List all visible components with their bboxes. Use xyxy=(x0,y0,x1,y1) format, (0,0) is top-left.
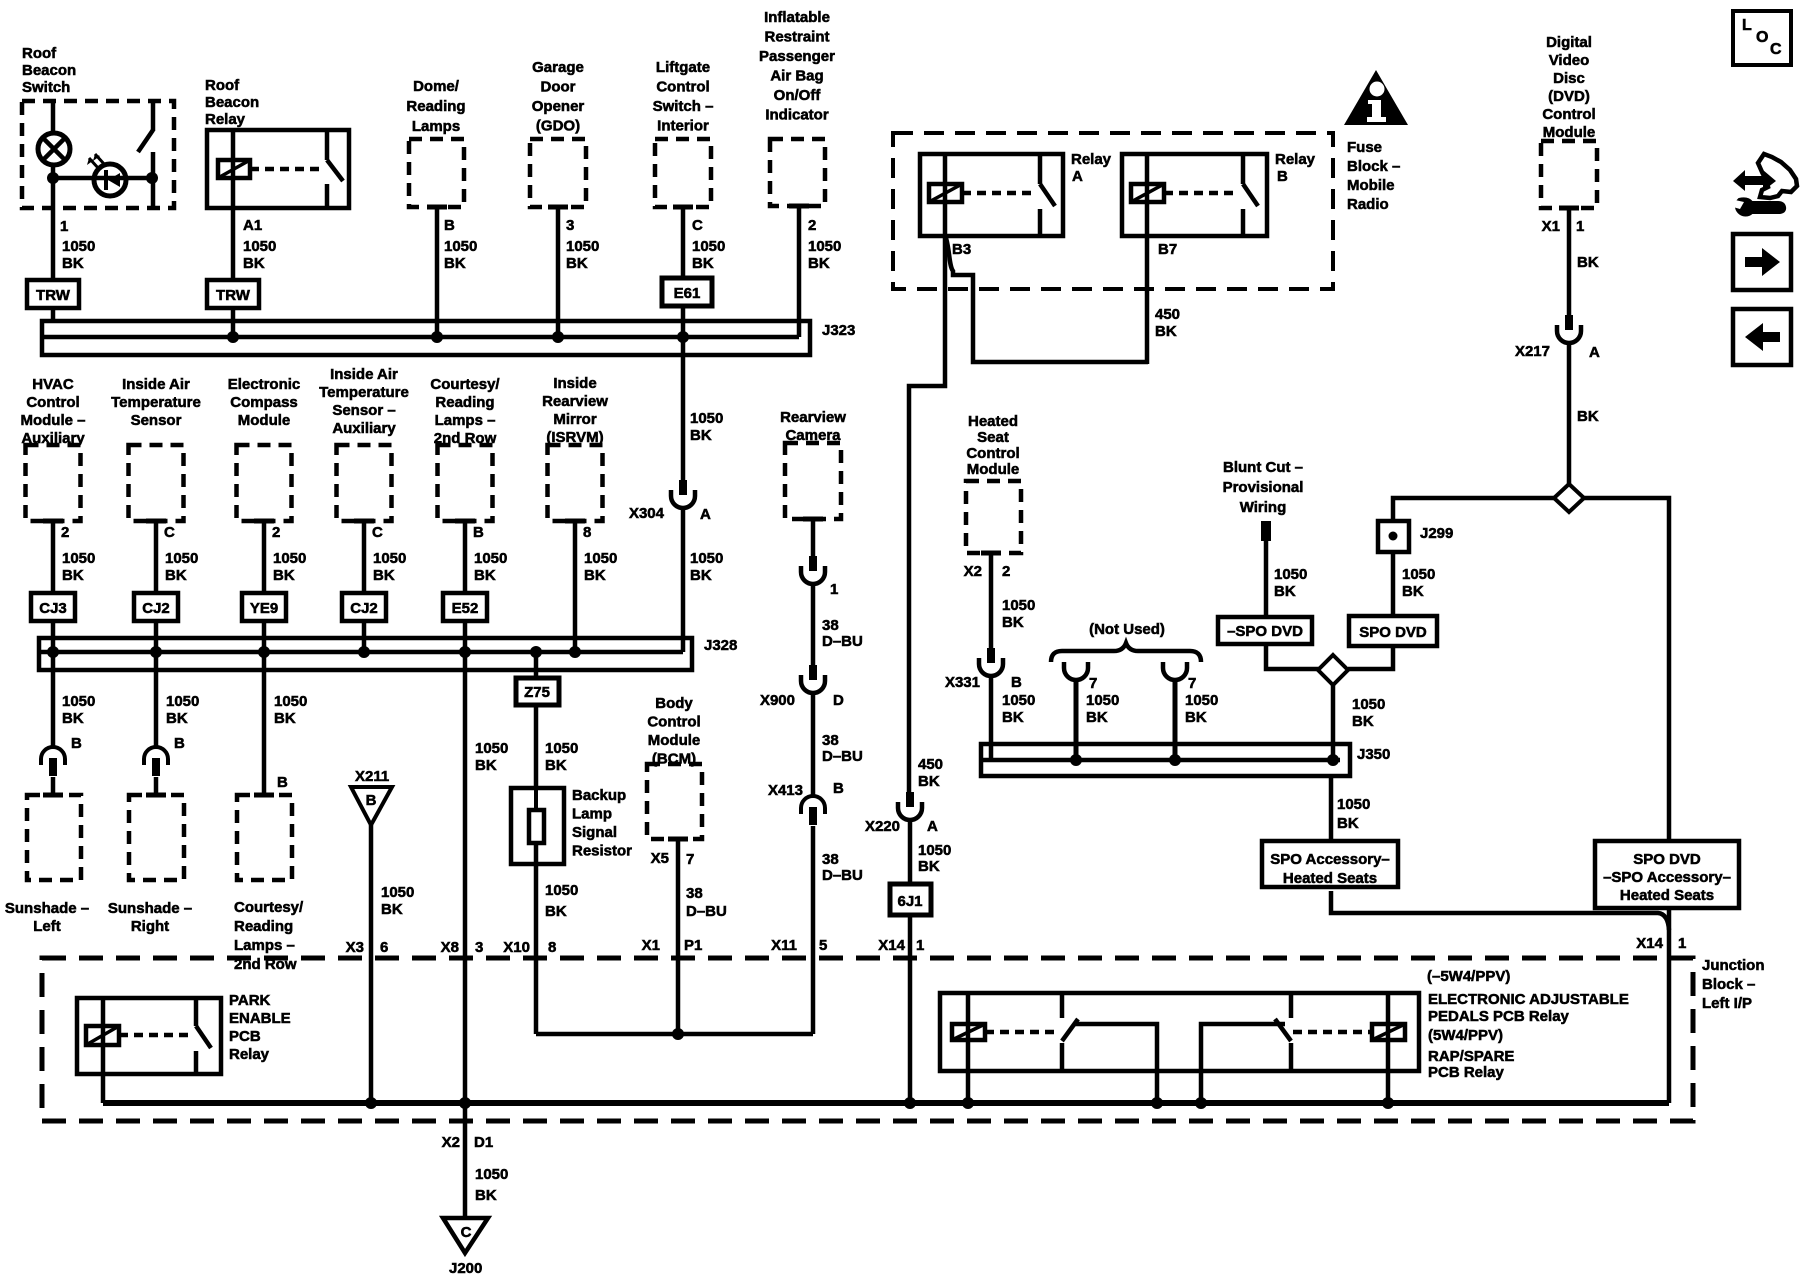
svg-text:1050: 1050 xyxy=(273,550,306,567)
svg-text:BK: BK xyxy=(1185,709,1207,726)
svg-text:Control: Control xyxy=(26,394,79,411)
svg-text:Rearview: Rearview xyxy=(542,393,608,410)
svg-text:Junction: Junction xyxy=(1702,957,1765,974)
svg-text:Restraint: Restraint xyxy=(764,29,829,46)
svg-text:1050: 1050 xyxy=(1352,696,1385,713)
svg-text:Control: Control xyxy=(647,714,700,731)
pin B7 (relay B) xyxy=(1158,241,1177,258)
splice YE9 xyxy=(242,593,286,621)
svg-text:BK: BK xyxy=(690,567,712,584)
svg-text:Left: Left xyxy=(33,918,61,935)
svg-text:B7: B7 xyxy=(1158,241,1177,258)
svg-text:BK: BK xyxy=(475,757,497,774)
svg-text:HVAC: HVAC xyxy=(32,376,74,393)
pin X1 P1 (junction block) xyxy=(642,937,703,954)
splice Z75 xyxy=(516,678,559,705)
svg-text:BK: BK xyxy=(918,773,940,790)
pin X11 5 (junction block) xyxy=(771,937,827,954)
svg-text:450: 450 xyxy=(918,756,943,773)
wire 1050 BK J299 to SPO DVD box xyxy=(1393,552,1435,616)
svg-text:D1: D1 xyxy=(474,1134,493,1151)
svg-text:Door: Door xyxy=(541,79,576,96)
pin C (Inside Air Temperature Sensor - Auxiliary) xyxy=(372,524,383,541)
svg-text:D–BU: D–BU xyxy=(822,748,863,765)
svg-text:Module –: Module – xyxy=(20,412,85,429)
splice TRW xyxy=(27,280,79,308)
label Inside Rearview Mirror (ISRVM) xyxy=(542,375,608,446)
label 1050 BK (ground lead) xyxy=(475,1166,508,1204)
splice CJ2 xyxy=(134,593,178,621)
svg-text:Relay: Relay xyxy=(1071,151,1112,168)
label Body Control Module (BCM) xyxy=(647,695,700,768)
svg-text:1: 1 xyxy=(830,581,838,598)
wire 1050 BK X304 to J328 xyxy=(683,509,723,652)
svg-text:Auxiliary: Auxiliary xyxy=(332,420,396,437)
svg-text:Sensor –: Sensor – xyxy=(332,402,395,419)
svg-text:X220: X220 xyxy=(865,818,900,835)
svg-text:BK: BK xyxy=(166,710,188,727)
svg-text:Switch –: Switch – xyxy=(653,98,714,115)
svg-text:1050: 1050 xyxy=(444,238,477,255)
wire CJ3 to J328 xyxy=(47,621,59,658)
wire 1050 BK Inside Air Temperature Sensor - Auxiliary to CJ2 xyxy=(364,521,406,593)
wire 38 D-BU X413 to X11 xyxy=(813,826,863,1034)
module Garage Door Opener (dashed box) xyxy=(530,139,586,207)
svg-text:1: 1 xyxy=(916,937,924,954)
blunt cut wire end symbol xyxy=(1261,521,1271,541)
svg-text:Air Bag: Air Bag xyxy=(770,68,823,85)
splice diamond (DVD ground) xyxy=(1554,484,1584,512)
brace (not used connectors) xyxy=(1051,643,1201,662)
svg-text:BK: BK xyxy=(690,427,712,444)
label 450 BK (X220 feed) xyxy=(918,756,943,790)
option box -SPO DVD xyxy=(1218,617,1312,644)
junction dots on ground bus xyxy=(365,1097,1394,1109)
svg-text:SPO Accessory–: SPO Accessory– xyxy=(1270,851,1390,868)
svg-text:BK: BK xyxy=(584,567,606,584)
wire E61 through J323 to X304 xyxy=(677,306,723,480)
wire 1050 BK X331 to J350 xyxy=(991,677,1035,760)
svg-text:3: 3 xyxy=(566,217,574,234)
wire B3 jog to B7 450 BK xyxy=(946,238,1148,362)
pin C (liftgate control switch) xyxy=(692,217,703,234)
svg-text:Courtesy/: Courtesy/ xyxy=(234,899,304,916)
module Sunshade - Left (dashed box) xyxy=(27,795,81,880)
svg-text:Radio: Radio xyxy=(1347,196,1389,213)
svg-text:Right: Right xyxy=(131,918,169,935)
svg-text:BK: BK xyxy=(381,901,403,918)
wire 450 BK relay B down xyxy=(1147,236,1180,364)
svg-text:(DVD): (DVD) xyxy=(1548,88,1590,105)
label Courtesy/Reading Lamps - 2nd Row xyxy=(430,376,500,447)
svg-text:BK: BK xyxy=(1352,713,1374,730)
svg-text:Body: Body xyxy=(655,695,693,712)
lamp Courtesy/Reading Lamps - 2nd Row (dashed box) xyxy=(237,795,292,880)
svg-text:Beacon: Beacon xyxy=(205,94,259,111)
svg-text:Interior: Interior xyxy=(657,118,709,135)
svg-text:B: B xyxy=(71,735,82,752)
wire 1050 BK diamond to J350 xyxy=(1333,685,1385,760)
svg-text:Inside Air: Inside Air xyxy=(330,366,398,383)
svg-text:Courtesy/: Courtesy/ xyxy=(430,376,500,393)
fuse block dashed enclosure xyxy=(893,133,1333,289)
svg-text:38: 38 xyxy=(822,851,839,868)
label Liftgate Control Switch - Interior xyxy=(653,59,714,135)
svg-text:X900: X900 xyxy=(760,692,795,709)
svg-text:J328: J328 xyxy=(704,637,737,654)
svg-text:BK: BK xyxy=(808,255,830,272)
svg-text:Wiring: Wiring xyxy=(1240,499,1287,516)
svg-text:ELECTRONIC ADJUSTABLE: ELECTRONIC ADJUSTABLE xyxy=(1428,991,1629,1008)
svg-text:Block –: Block – xyxy=(1702,976,1755,993)
svg-text:X3: X3 xyxy=(346,939,364,956)
svg-text:Passenger: Passenger xyxy=(759,48,835,65)
svg-text:SPO DVD: SPO DVD xyxy=(1633,851,1701,868)
svg-text:Seat: Seat xyxy=(977,429,1009,446)
bus J323 ground distribution xyxy=(42,321,810,355)
wire pedals relay contact to ground bus xyxy=(1075,1024,1157,1103)
relay B (fuse block mobile radio) xyxy=(1122,154,1267,236)
module Inside Air Temperature Sensor (dashed box) xyxy=(129,445,184,521)
svg-text:1050: 1050 xyxy=(1002,692,1035,709)
svg-text:1050: 1050 xyxy=(166,693,199,710)
svg-text:BK: BK xyxy=(474,567,496,584)
svg-text:Module: Module xyxy=(648,732,701,749)
svg-text:Control: Control xyxy=(656,79,709,96)
svg-text:B: B xyxy=(1277,168,1288,185)
option box SPO DVD xyxy=(1349,616,1437,646)
svg-text:X304: X304 xyxy=(629,505,665,522)
svg-text:(GDO): (GDO) xyxy=(536,118,580,135)
wire 1050 BK roof beacon relay to TRW xyxy=(233,208,276,280)
svg-text:1050: 1050 xyxy=(62,550,95,567)
svg-text:Sensor: Sensor xyxy=(131,412,182,429)
svg-text:Module: Module xyxy=(238,412,291,429)
svg-text:Lamp: Lamp xyxy=(572,806,612,823)
wire park enable relay coil to ground bus xyxy=(101,1074,106,1103)
svg-text:1050: 1050 xyxy=(1185,692,1218,709)
wire 1050 BK J328 to Z75 xyxy=(530,646,542,678)
label Relay B xyxy=(1275,151,1316,185)
wire into sunshade right xyxy=(154,777,159,795)
svg-text:Control: Control xyxy=(1542,106,1595,123)
wire 1050 BK Courtesy/Reading Lamps - 2nd Row to E52 xyxy=(465,521,507,593)
svg-text:1: 1 xyxy=(1576,218,1584,235)
module DVD Control Module (dashed box) xyxy=(1541,141,1597,208)
module HVAC Control Module - Auxiliary (dashed box) xyxy=(26,445,81,521)
svg-text:X10: X10 xyxy=(503,939,530,956)
svg-text:Opener: Opener xyxy=(532,98,585,115)
svg-text:1050: 1050 xyxy=(690,550,723,567)
splice TRW (2) xyxy=(207,280,259,308)
relay coil (pedals PCB relay) xyxy=(952,993,1057,1071)
svg-text:1050: 1050 xyxy=(243,238,276,255)
svg-text:1050: 1050 xyxy=(1274,566,1307,583)
svg-text:J350: J350 xyxy=(1357,746,1390,763)
lamp (roof beacon switch illumination) xyxy=(38,133,70,165)
label Backup Lamp Signal Resistor xyxy=(572,787,632,860)
wire 1050 BK resistor to junction block X10-8 xyxy=(536,864,578,1034)
splice J299 xyxy=(1378,521,1453,552)
svg-text:D: D xyxy=(833,692,844,709)
svg-text:X2: X2 xyxy=(442,1134,460,1151)
pin B3 (relay A) xyxy=(952,241,971,258)
svg-text:D–BU: D–BU xyxy=(822,633,863,650)
wire 1050 BK J350 to SPO Accessory box xyxy=(1331,776,1370,841)
svg-text:Reading: Reading xyxy=(435,394,494,411)
svg-text:Heated Seats: Heated Seats xyxy=(1620,887,1714,904)
svg-text:Temperature: Temperature xyxy=(111,394,201,411)
switch Liftgate Control Switch (dashed box) xyxy=(655,139,711,207)
wire 1050 BK liftgate switch to E61 xyxy=(683,207,725,278)
svg-text:X8: X8 xyxy=(441,939,459,956)
label Inflatable Restraint Passenger Air Bag On/Off Indicator xyxy=(759,9,835,124)
icon harness routing (arrows, outline, wrench) xyxy=(1733,154,1797,216)
label Digital Video Disc (DVD) Control Module xyxy=(1542,34,1595,141)
splice E52 xyxy=(443,593,487,621)
svg-text:Electronic: Electronic xyxy=(228,376,301,393)
svg-text:Backup: Backup xyxy=(572,787,626,804)
svg-text:BK: BK xyxy=(62,255,84,272)
svg-text:–SPO DVD: –SPO DVD xyxy=(1227,623,1303,640)
svg-text:8: 8 xyxy=(548,939,556,956)
module Rearview Camera (dashed box) xyxy=(785,443,841,519)
svg-text:8: 8 xyxy=(583,524,591,541)
svg-text:L: L xyxy=(1742,17,1752,34)
svg-text:1050: 1050 xyxy=(381,884,414,901)
label (Not Used) xyxy=(1089,621,1165,638)
svg-text:BK: BK xyxy=(274,710,296,727)
switch S1 Roof Beacon Switch (dashed box) xyxy=(22,101,174,208)
svg-text:38: 38 xyxy=(822,732,839,749)
svg-text:BK: BK xyxy=(692,255,714,272)
wire 1050 BK roof beacon switch to TRW xyxy=(53,208,95,280)
svg-text:J200: J200 xyxy=(449,1260,482,1277)
wire SPO DVD accessory box to junction block X14-1 right xyxy=(1667,908,1672,1103)
svg-text:7: 7 xyxy=(1089,675,1097,692)
svg-text:2: 2 xyxy=(272,524,280,541)
svg-text:1050: 1050 xyxy=(475,740,508,757)
module Inside Rearview Mirror (ISRVM) (dashed box) xyxy=(548,445,603,521)
svg-text:X1: X1 xyxy=(642,937,660,954)
svg-text:1: 1 xyxy=(1678,935,1686,952)
svg-text:BK: BK xyxy=(165,567,187,584)
label Dome/Reading Lamps xyxy=(406,78,465,135)
svg-text:1050: 1050 xyxy=(692,238,725,255)
svg-text:Mobile: Mobile xyxy=(1347,177,1395,194)
label Roof Beacon Switch xyxy=(22,45,76,96)
svg-text:Garage: Garage xyxy=(532,59,584,76)
label Blunt Cut - Provisional Wiring xyxy=(1223,459,1304,516)
svg-text:1050: 1050 xyxy=(566,238,599,255)
svg-text:1050: 1050 xyxy=(274,693,307,710)
wire 1050 BK Z75 to backup lamp resistor xyxy=(536,705,578,788)
wire BK DVD module to X217 xyxy=(1569,208,1599,315)
svg-text:BK: BK xyxy=(373,567,395,584)
label Rearview Camera xyxy=(780,409,846,444)
svg-text:1050: 1050 xyxy=(584,550,617,567)
svg-text:BK: BK xyxy=(1002,614,1024,631)
svg-text:B: B xyxy=(366,792,377,809)
svg-text:RAP/SPARE: RAP/SPARE xyxy=(1428,1048,1514,1065)
relay contacts (RAP/SPARE PCB relay) xyxy=(1275,993,1291,1071)
svg-text:6J1: 6J1 xyxy=(897,893,922,910)
resistor Backup Lamp Signal Resistor xyxy=(511,788,564,864)
wire 1050 BK blunt cut to -SPO DVD xyxy=(1266,541,1307,617)
pin 2 (air bag indicator) xyxy=(808,217,816,234)
svg-text:Relay: Relay xyxy=(205,111,246,128)
svg-text:BK: BK xyxy=(1155,323,1177,340)
module Body Control Module BCM (dashed box) xyxy=(647,764,702,839)
label Courtesy/Reading Lamps - 2nd Row xyxy=(234,899,304,973)
pin A1 (roof beacon relay) xyxy=(243,217,262,234)
svg-text:1050: 1050 xyxy=(62,238,95,255)
svg-text:1050: 1050 xyxy=(474,550,507,567)
svg-text:Lamps –: Lamps – xyxy=(435,412,496,429)
svg-text:Inside: Inside xyxy=(553,375,596,392)
svg-text:BK: BK xyxy=(243,255,265,272)
switch contacts (roof beacon switch) xyxy=(138,101,153,208)
svg-text:Temperature: Temperature xyxy=(319,384,409,401)
wire 1050 BK air bag indicator to J323 xyxy=(799,206,841,337)
node X211 ring terminal B xyxy=(351,768,392,825)
label HVAC Control Module - Auxiliary xyxy=(20,376,85,447)
connector X217 pin A xyxy=(1515,315,1600,361)
wire tie X10/X1/X11 inside junction block xyxy=(536,1028,813,1040)
svg-text:Beacon: Beacon xyxy=(22,62,76,79)
svg-text:CJ3: CJ3 xyxy=(39,600,67,617)
svg-text:CJ2: CJ2 xyxy=(142,600,170,617)
relay coil (RAP/SPARE PCB relay) xyxy=(1293,993,1405,1071)
label Fuse Block - Mobile Radio xyxy=(1347,139,1400,213)
wire 1050 BK E52 to junction block X8-3 xyxy=(465,652,508,1218)
wire 1050 BK not-used right to J350 xyxy=(1169,680,1218,766)
svg-text:B: B xyxy=(444,217,455,234)
label Relay A xyxy=(1071,151,1112,185)
svg-text:1050: 1050 xyxy=(1086,692,1119,709)
svg-text:1050: 1050 xyxy=(808,238,841,255)
svg-text:X11: X11 xyxy=(771,937,797,954)
svg-text:Compass: Compass xyxy=(230,394,298,411)
svg-text:BK: BK xyxy=(475,1187,497,1204)
wire 1050 BK Electronic Compass Module to YE9 xyxy=(264,521,306,593)
module Sunshade - Right (dashed box) xyxy=(129,795,184,880)
svg-text:7: 7 xyxy=(1188,675,1196,692)
bus J350 ground distribution xyxy=(981,744,1350,776)
svg-text:Switch: Switch xyxy=(22,79,70,96)
splice CJ3 xyxy=(31,593,75,621)
label J350 xyxy=(1357,746,1390,763)
svg-text:1050: 1050 xyxy=(165,550,198,567)
svg-text:Sunshade –: Sunshade – xyxy=(5,900,89,917)
svg-text:Block –: Block – xyxy=(1347,158,1400,175)
svg-text:X14: X14 xyxy=(878,937,905,954)
pin 1 (roof beacon switch) xyxy=(60,218,68,235)
svg-text:Inside Air: Inside Air xyxy=(122,376,190,393)
label J328 xyxy=(704,637,737,654)
svg-text:Disc: Disc xyxy=(1553,70,1585,87)
svg-text:Inflatable: Inflatable xyxy=(764,9,830,26)
pin 2 (Electronic Compass Module) xyxy=(272,524,280,541)
wire BK X217 to splice diamond xyxy=(1569,344,1599,484)
label Electronic Compass Module xyxy=(228,376,301,429)
svg-text:1050: 1050 xyxy=(1402,566,1435,583)
label Sunshade - Left xyxy=(5,900,89,935)
svg-text:Provisional: Provisional xyxy=(1223,479,1304,496)
connector X304 pin A xyxy=(629,480,711,523)
connector pin B (sunshade left) xyxy=(41,735,82,776)
svg-text:A: A xyxy=(700,506,711,523)
svg-text:D–BU: D–BU xyxy=(686,903,727,920)
svg-text:Liftgate: Liftgate xyxy=(656,59,710,76)
wire 1050 BK X211 to junction block X3-6 xyxy=(371,825,414,1103)
ground G-C (triangle) xyxy=(443,1218,488,1253)
svg-text:Z75: Z75 xyxy=(524,684,550,701)
svg-text:Roof: Roof xyxy=(205,77,240,94)
svg-text:38: 38 xyxy=(822,617,839,634)
svg-text:–SPO Accessory–: –SPO Accessory– xyxy=(1603,869,1731,886)
svg-text:1050: 1050 xyxy=(373,550,406,567)
svg-text:Digital: Digital xyxy=(1546,34,1592,51)
ground bus inside junction block xyxy=(103,1100,1669,1106)
svg-text:2: 2 xyxy=(808,217,816,234)
label Junction Block - Left I/P xyxy=(1702,957,1765,1012)
splice E61 xyxy=(662,278,712,306)
wire CJ2 to J328 xyxy=(358,621,370,658)
pin B (dome/reading lamps) xyxy=(444,217,455,234)
svg-text:D–BU: D–BU xyxy=(822,867,863,884)
svg-text:X211: X211 xyxy=(355,768,389,785)
pin X14 1 (junction block middle) xyxy=(878,937,924,954)
svg-text:B: B xyxy=(833,780,844,797)
label Garage Door Opener (GDO) xyxy=(532,59,585,135)
svg-text:BK: BK xyxy=(566,255,588,272)
module Inside Air Temperature Sensor - Auxiliary (dashed box) xyxy=(337,445,392,521)
svg-text:X1: X1 xyxy=(1542,218,1560,235)
label Inside Air Temperature Sensor - Auxiliary xyxy=(319,366,409,437)
relay box Electronic Adjustable Pedals / RAP-SPARE PCB relays xyxy=(940,993,1419,1071)
svg-text:B: B xyxy=(473,524,484,541)
label J200 ground xyxy=(449,1260,482,1277)
svg-text:C: C xyxy=(461,1224,472,1241)
svg-text:Module: Module xyxy=(967,461,1020,478)
wire 1050 BK Inside Air Temperature Sensor to CJ2 xyxy=(156,521,198,593)
pin B (courtesy/reading lamps 2nd row) xyxy=(277,774,288,791)
svg-text:X331: X331 xyxy=(945,674,980,691)
svg-text:1050: 1050 xyxy=(545,882,578,899)
label Inside Air Temperature Sensor xyxy=(111,376,201,429)
wire pedals relay coil to ground bus xyxy=(966,1071,971,1103)
wire 1050 BK Inside Rearview Mirror (ISRVM) to J328 xyxy=(569,521,617,658)
svg-text:B3: B3 xyxy=(952,241,971,258)
svg-text:Heated: Heated xyxy=(968,413,1018,430)
wire 6J1 to junction block X14-1 xyxy=(908,915,913,1103)
svg-text:Module: Module xyxy=(1543,124,1596,141)
svg-text:PCB Relay: PCB Relay xyxy=(1428,1064,1505,1081)
pin X8 3 (junction block) xyxy=(441,939,484,956)
label Electronic Adjustable Pedals / RAP-SPARE PCB Relay options xyxy=(1427,968,1629,1081)
svg-text:YE9: YE9 xyxy=(250,600,278,617)
svg-text:5: 5 xyxy=(819,937,827,954)
svg-text:BK: BK xyxy=(1002,709,1024,726)
pin X14 1 (junction block right) xyxy=(1636,935,1686,952)
option box SPO Accessory - Heated Seats xyxy=(1262,841,1398,887)
svg-text:1050: 1050 xyxy=(1337,796,1370,813)
connector pin B (sunshade right) xyxy=(144,735,185,776)
svg-text:X413: X413 xyxy=(768,782,803,799)
pin X2 2 (heated seat control module) xyxy=(964,563,1011,580)
wire 1050 BK heated seat module to X331 xyxy=(991,553,1035,648)
